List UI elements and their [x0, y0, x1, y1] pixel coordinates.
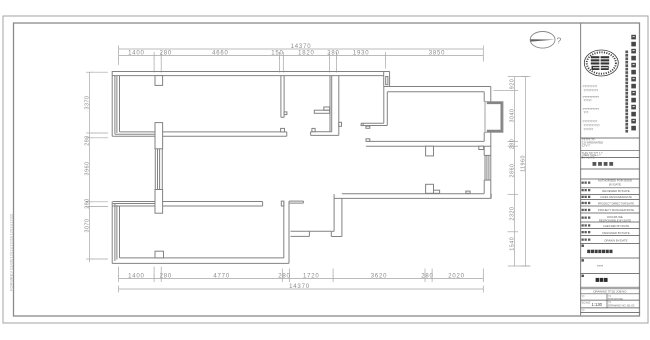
south wall and kitchen door	[333, 194, 335, 231]
drawing title box (bold CJK)	[582, 275, 584, 277]
living room left wall + step	[383, 87, 385, 124]
svg-text:1720: 1720	[303, 274, 320, 280]
title block divider	[580, 23, 582, 316]
svg-text:CHIEF DESIGNER/DATE: CHIEF DESIGNER/DATE	[600, 195, 632, 199]
svg-text:DISCIPLINE: DISCIPLINE	[608, 297, 623, 301]
svg-text:1400: 1400	[128, 51, 145, 57]
svg-text:??????: ??????	[584, 128, 594, 132]
company name vertical CJK column (as glyph blocks)	[631, 35, 636, 131]
svg-text:2860: 2860	[509, 164, 515, 178]
svg-text:280: 280	[278, 274, 290, 280]
dim line top segments	[119, 55, 484, 57]
svg-text:150: 150	[271, 51, 283, 57]
svg-text:PROJECT DIRECTOR/DATE: PROJECT DIRECTOR/DATE	[598, 201, 634, 205]
bedroom3 left window wall	[111, 202, 113, 264]
svg-text:3370: 3370	[85, 96, 91, 110]
north arrow	[530, 32, 561, 49]
svg-text:DRAWN BY/DATE: DRAWN BY/DATE	[605, 238, 628, 242]
seal stamp	[584, 50, 618, 76]
second box small text	[582, 259, 584, 261]
living room right wall	[483, 92, 485, 102]
bedroom1 right thin wall	[280, 76, 282, 118]
left dim line	[89, 72, 91, 262]
svg-text:280: 280	[160, 274, 172, 280]
bedroom3 top wall	[113, 201, 263, 203]
bedroom1 bottom wall	[112, 135, 287, 137]
lower right room bottom wall	[342, 193, 484, 195]
svg-text:BY/DATE: BY/DATE	[609, 182, 621, 186]
svg-text:2020: 2020	[448, 274, 465, 280]
bedroom3 bottom wall	[120, 257, 284, 259]
svg-text:14370: 14370	[289, 284, 310, 290]
svg-text:BY / DATE: BY / DATE	[582, 155, 595, 159]
svg-text:FORMREV 01/06(1201)(1201)(120: FORMREV 01/06(1201)(1201)(1201)(1202)	[9, 213, 14, 291]
svg-text:SCALE: SCALE	[582, 300, 591, 304]
svg-text:??: ??	[582, 295, 585, 299]
svg-text:CHECKED BY/DATE: CHECKED BY/DATE	[603, 224, 629, 228]
svg-text:920: 920	[509, 79, 515, 90]
svg-text:1820: 1820	[298, 51, 315, 57]
svg-text:3070: 3070	[85, 219, 91, 233]
svg-text:2320: 2320	[509, 207, 515, 221]
svg-text:?????: ?????	[584, 99, 592, 103]
living room top wall	[384, 86, 491, 88]
svg-text:1930: 1930	[353, 51, 370, 57]
svg-text:REVIEWED BY/DATE: REVIEWED BY/DATE	[602, 189, 630, 193]
project name box	[582, 245, 584, 247]
client sign (CJK blocks)	[593, 162, 614, 166]
svg-text:??: ??	[582, 309, 585, 313]
svg-text:?????????: ?????????	[584, 89, 599, 93]
svg-text:3040: 3040	[509, 109, 515, 123]
svg-text:???: ???	[584, 111, 589, 115]
dimension texts	[85, 44, 527, 290]
svg-text:3620: 3620	[371, 274, 388, 280]
white piers and jambs drawn over walls	[155, 76, 484, 258]
svg-text:?: ?	[557, 36, 562, 46]
svg-text:1540: 1540	[509, 237, 515, 251]
corridor west wall	[329, 76, 331, 132]
living room bottom wall	[368, 140, 484, 142]
svg-text:????: ????	[597, 264, 604, 268]
svg-text:280: 280	[421, 274, 433, 280]
main top wall	[112, 71, 390, 73]
svg-text:280: 280	[327, 51, 339, 57]
bottom witness lines	[118, 267, 120, 277]
middle column window between rooms	[154, 149, 156, 190]
svg-text:14370: 14370	[291, 44, 312, 50]
svg-text:3850: 3850	[429, 51, 446, 57]
svg-text:280: 280	[85, 135, 91, 146]
approval rows	[582, 179, 635, 243]
svg-text:1:130: 1:130	[592, 302, 603, 307]
svg-text:4660: 4660	[212, 51, 229, 57]
wardrobe	[314, 110, 329, 113]
right dim lines	[514, 77, 516, 266]
svg-text:3960: 3960	[85, 162, 91, 176]
svg-text:DRAWING NO. B1-03: DRAWING NO. B1-03	[608, 304, 635, 308]
svg-text:DRAWING TITLE JOB NO: DRAWING TITLE JOB NO	[594, 289, 628, 293]
left window wall bedroom1	[111, 72, 113, 137]
title block rules	[581, 138, 640, 313]
dim line top total 14370	[119, 48, 484, 50]
svg-text:280: 280	[160, 51, 172, 57]
entry step at top wall end	[383, 72, 385, 87]
svg-text:4770: 4770	[213, 274, 230, 280]
svg-text:CTV-T: CTV-T	[582, 144, 590, 148]
top witness lines	[118, 58, 120, 66]
dim line bottom segments	[119, 278, 484, 280]
svg-text:PROJECT MANAGER/DATE: PROJECT MANAGER/DATE	[598, 208, 634, 212]
dim line bottom total	[119, 288, 484, 290]
svg-text:DESIGNED BY/DATE: DESIGNED BY/DATE	[602, 231, 629, 235]
svg-text:280: 280	[85, 198, 91, 209]
bay window	[485, 102, 503, 133]
bedroom3 right wall	[283, 201, 285, 258]
svg-text:1400: 1400	[128, 274, 145, 280]
svg-text:11960: 11960	[520, 155, 526, 172]
lower right room right wall + window	[483, 146, 485, 155]
address lines	[582, 85, 600, 132]
svg-text:RESPONSIBLE BY/DATE: RESPONSIBLE BY/DATE	[599, 218, 631, 222]
svg-text:280: 280	[509, 139, 515, 150]
